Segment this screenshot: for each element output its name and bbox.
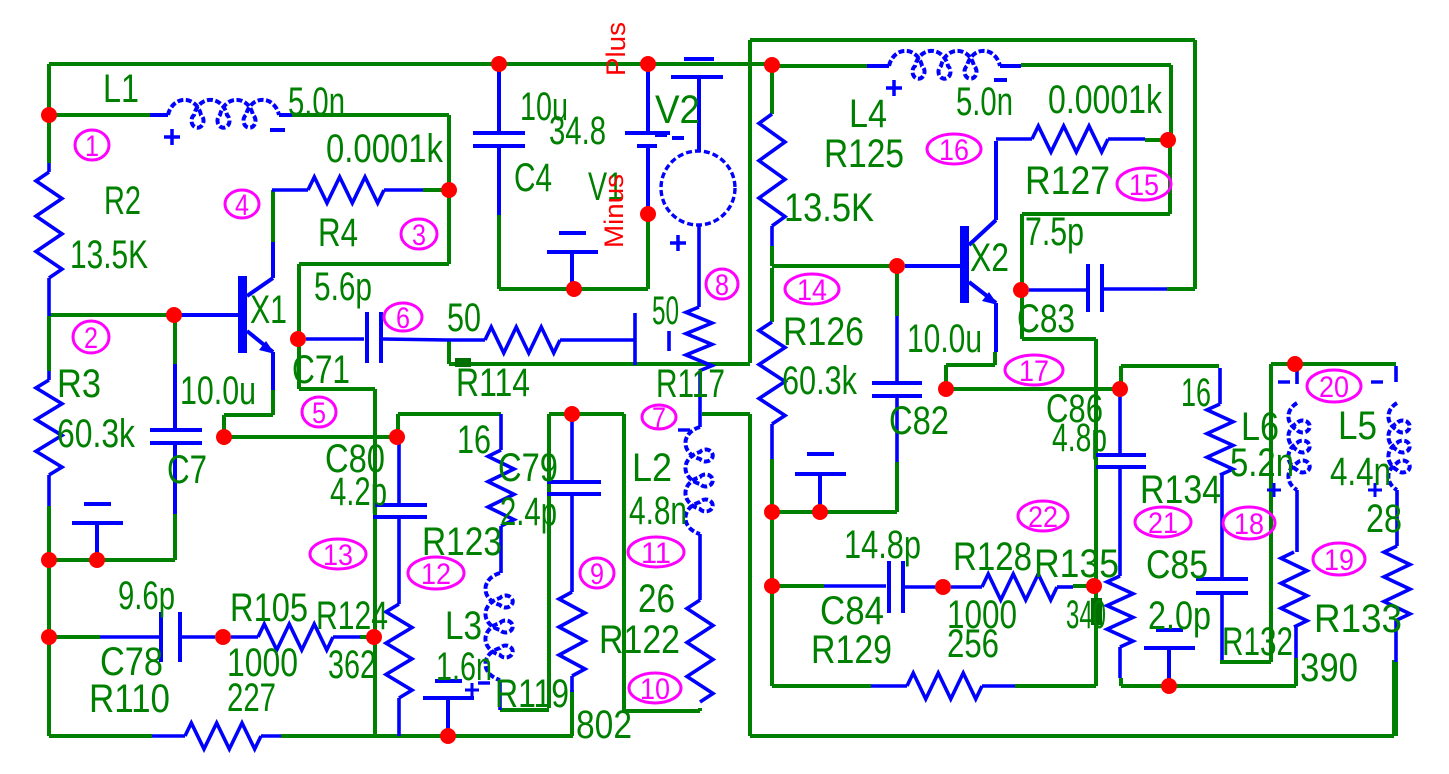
svg-text:C7: C7 <box>167 448 207 492</box>
svg-text:3: 3 <box>412 219 426 252</box>
svg-text:9: 9 <box>590 558 604 591</box>
svg-text:R134: R134 <box>1140 468 1221 512</box>
svg-text:C82: C82 <box>889 399 949 443</box>
svg-text:Plus: Plus <box>601 22 631 76</box>
svg-text:L4: L4 <box>849 92 887 136</box>
svg-text:340: 340 <box>1066 593 1106 637</box>
svg-text:16: 16 <box>457 418 491 462</box>
svg-text:14: 14 <box>797 274 827 307</box>
svg-text:4.8n: 4.8n <box>629 489 687 533</box>
svg-text:10.0u: 10.0u <box>907 317 982 361</box>
svg-text:13.5K: 13.5K <box>784 186 874 230</box>
svg-text:18: 18 <box>1234 508 1264 541</box>
svg-text:7: 7 <box>652 402 666 435</box>
svg-text:X2: X2 <box>970 236 1009 280</box>
svg-text:C79: C79 <box>498 446 558 490</box>
svg-text:4: 4 <box>235 189 249 222</box>
svg-text:34.8: 34.8 <box>549 109 606 153</box>
svg-text:19: 19 <box>1324 544 1354 577</box>
svg-text:0.0001k: 0.0001k <box>326 127 444 171</box>
svg-text:R105: R105 <box>230 586 308 630</box>
svg-text:R124: R124 <box>316 594 388 638</box>
svg-text:5.6p: 5.6p <box>314 265 372 309</box>
svg-text:X1: X1 <box>250 288 287 332</box>
svg-text:L3: L3 <box>445 604 482 648</box>
svg-text:5.2n: 5.2n <box>1230 441 1294 485</box>
svg-text:7.5p: 7.5p <box>1025 210 1084 254</box>
svg-text:R133: R133 <box>1314 597 1402 641</box>
svg-text:16: 16 <box>1181 371 1211 415</box>
svg-text:R126: R126 <box>783 310 864 354</box>
svg-text:R2: R2 <box>104 179 141 223</box>
svg-text:C85: C85 <box>1146 543 1208 587</box>
svg-text:4.8p: 4.8p <box>1052 416 1107 460</box>
svg-text:4.4n: 4.4n <box>1330 450 1391 494</box>
svg-text:R117: R117 <box>656 362 725 406</box>
svg-text:1: 1 <box>85 130 99 163</box>
svg-text:C4: C4 <box>514 156 552 200</box>
svg-text:C83: C83 <box>1017 297 1075 341</box>
svg-text:20: 20 <box>1319 371 1349 404</box>
svg-text:R114: R114 <box>456 361 530 405</box>
svg-text:8: 8 <box>715 269 729 302</box>
svg-text:50: 50 <box>652 289 679 333</box>
svg-text:28: 28 <box>1366 497 1402 541</box>
svg-text:2: 2 <box>84 322 98 355</box>
svg-text:22: 22 <box>1028 501 1058 534</box>
svg-text:60.3k: 60.3k <box>57 412 136 456</box>
svg-text:R135: R135 <box>1034 542 1119 586</box>
svg-text:256: 256 <box>947 622 999 666</box>
svg-text:15: 15 <box>1129 169 1159 202</box>
svg-text:R110: R110 <box>89 677 170 721</box>
svg-text:C71: C71 <box>292 348 350 392</box>
svg-text:R128: R128 <box>953 535 1032 579</box>
svg-text:4.2p: 4.2p <box>330 470 387 514</box>
svg-text:11: 11 <box>641 537 671 570</box>
svg-text:R122: R122 <box>599 618 680 662</box>
svg-text:10: 10 <box>640 673 670 706</box>
svg-text:50: 50 <box>447 296 481 340</box>
svg-text:26: 26 <box>638 577 675 621</box>
svg-text:R119: R119 <box>495 672 569 716</box>
svg-text:R3: R3 <box>57 362 101 406</box>
svg-text:R125: R125 <box>824 132 904 176</box>
svg-text:C84: C84 <box>820 589 884 633</box>
svg-text:17: 17 <box>1019 355 1049 388</box>
svg-text:9.6p: 9.6p <box>118 574 175 618</box>
svg-text:10.0u: 10.0u <box>180 369 256 413</box>
svg-text:R127: R127 <box>1025 159 1110 203</box>
svg-text:16: 16 <box>939 134 969 167</box>
svg-text:390: 390 <box>1300 646 1358 690</box>
svg-text:6: 6 <box>396 302 410 335</box>
svg-text:L5: L5 <box>1338 404 1377 448</box>
svg-text:5.0n: 5.0n <box>288 80 345 124</box>
svg-text:1.6n: 1.6n <box>436 645 492 689</box>
svg-text:R132: R132 <box>1222 620 1293 664</box>
svg-text:13.5K: 13.5K <box>70 233 148 277</box>
svg-text:R123: R123 <box>422 520 502 564</box>
svg-text:5: 5 <box>312 397 326 430</box>
svg-text:14.8p: 14.8p <box>844 523 921 567</box>
svg-text:0.0001k: 0.0001k <box>1048 78 1163 122</box>
svg-text:5.0n: 5.0n <box>956 80 1013 124</box>
svg-text:227: 227 <box>227 676 276 720</box>
svg-text:L1: L1 <box>103 67 139 111</box>
svg-text:802: 802 <box>576 703 632 747</box>
svg-text:L2: L2 <box>632 446 672 490</box>
svg-text:R129: R129 <box>811 628 892 672</box>
svg-text:362: 362 <box>328 643 376 687</box>
svg-text:V2: V2 <box>655 88 700 132</box>
svg-text:60.3k: 60.3k <box>782 359 858 403</box>
svg-text:R4: R4 <box>318 211 358 255</box>
svg-text:13: 13 <box>323 539 353 572</box>
svg-text:2.4p: 2.4p <box>500 490 557 534</box>
svg-text:2.0p: 2.0p <box>1148 594 1211 638</box>
svg-text:Minus: Minus <box>599 174 629 248</box>
